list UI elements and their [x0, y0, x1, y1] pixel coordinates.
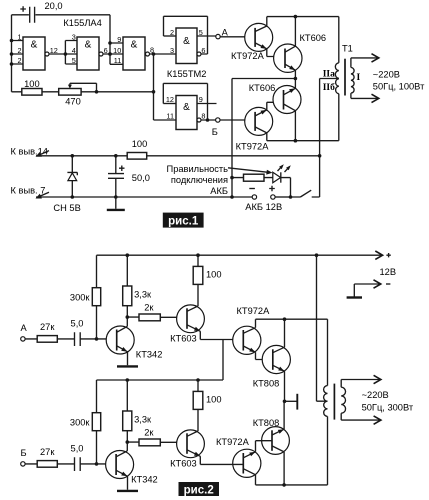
transformer T2 secondary	[341, 380, 345, 421]
supply minus arrow	[354, 283, 380, 285]
wire top rail to capacitor C1	[12, 14, 111, 16]
svg-text:&: &	[31, 40, 38, 51]
svg-text:IIб: IIб	[323, 82, 335, 93]
transistor KT808 B	[262, 427, 290, 455]
svg-text:К выв. 7: К выв. 7	[11, 185, 46, 195]
resistor 300k A	[96, 255, 98, 339]
node A terminal	[216, 34, 220, 38]
svg-text:К выв.14: К выв.14	[11, 146, 48, 156]
svg-text:3: 3	[72, 33, 76, 42]
svg-text:2: 2	[17, 46, 21, 55]
U2.1 pin6 bubble	[197, 52, 201, 56]
supply plus sign	[386, 253, 390, 257]
svg-text:АКБ: АКБ	[210, 186, 228, 196]
LED HL1	[273, 172, 281, 182]
wire emitter return vertical	[231, 79, 233, 198]
wire gnd rail B	[36, 196, 252, 198]
svg-text:100: 100	[132, 139, 148, 149]
wire U2.1 feedback loop 6 to 2	[164, 16, 208, 54]
svg-text:подключения: подключения	[171, 175, 228, 185]
gate U1.2 box	[77, 37, 99, 70]
svg-text:12: 12	[166, 95, 174, 104]
svg-text:К155ЛА4: К155ЛА4	[63, 18, 101, 28]
transistor KT342 A	[106, 326, 134, 354]
svg-text:5,0: 5,0	[71, 443, 84, 453]
node dot base B	[95, 462, 99, 466]
transistor KT808 A	[262, 345, 290, 373]
svg-text:8: 8	[201, 112, 205, 121]
resistor 2k B	[127, 441, 187, 443]
wire emitters center tap	[232, 78, 297, 80]
transistor Q2 KT606 top	[274, 44, 302, 72]
node dot wiper to track	[95, 90, 99, 94]
resistor 2k A	[127, 316, 187, 318]
node dot rail/center-tap	[315, 253, 319, 257]
svg-text:КТ972А: КТ972А	[236, 141, 270, 151]
transistor Q4 KT606 bottom	[273, 86, 301, 114]
wire base A	[97, 338, 117, 340]
node dot RC feedback	[152, 90, 156, 94]
wire plus to switch	[275, 196, 290, 198]
node dot loop/B	[206, 118, 210, 122]
zener VD1 SN5V	[71, 156, 73, 197]
wire secondary bottom out	[341, 419, 380, 421]
wire collectors rail B-pair	[256, 484, 328, 486]
transistor Q3 KT972A bottom	[245, 107, 273, 135]
svg-text:10: 10	[113, 46, 121, 55]
svg-text:470: 470	[65, 96, 81, 106]
gate U1.3 input stubs	[110, 43, 123, 64]
transformer T1 secondary winding I	[351, 58, 354, 99]
gate U1.1 input stubs	[12, 41, 24, 65]
capacitor 5,0 B	[75, 457, 81, 471]
node dot base A	[95, 337, 99, 341]
wire U1.1 out to U1.2 in	[49, 53, 65, 55]
svg-text:2к: 2к	[144, 427, 154, 437]
resistor 100 B	[193, 391, 203, 409]
node dot gate3 pin9	[108, 41, 112, 45]
transistor Q1 KT972A top	[245, 23, 273, 51]
transistor KT972A B	[233, 449, 261, 477]
gate U1.1 output bubble pin12	[45, 52, 49, 56]
wire base B	[97, 463, 117, 465]
node dot rail/100 A	[196, 253, 200, 257]
node B terminal	[216, 118, 220, 122]
svg-text:КТ342: КТ342	[131, 475, 158, 485]
svg-text:27к: 27к	[40, 322, 55, 332]
wire collectors rail A-pair	[256, 318, 328, 320]
wire battery feed to center tap	[320, 79, 339, 198]
svg-text:27к: 27к	[40, 447, 55, 457]
wire output bottom with arrow	[351, 97, 378, 99]
wire U1.3 out to FF clock node	[150, 53, 177, 55]
ground symbol minus	[353, 284, 355, 297]
svg-text:&: &	[183, 102, 190, 113]
resistor 100 A	[193, 266, 203, 284]
battery plus terminal	[271, 195, 275, 199]
transformer T2 primary	[327, 319, 329, 385]
node dot U1.2 inputs	[64, 52, 68, 56]
node dot 3.3k/2k A	[126, 315, 130, 319]
node dot Q4 collector	[294, 139, 298, 143]
capacitor C2 50,0	[115, 156, 117, 197]
svg-text:2: 2	[17, 56, 21, 65]
wire KT603A emitter to KT972A base	[200, 339, 243, 341]
fig1 label	[163, 213, 204, 228]
annotation arrow to LED	[228, 168, 267, 172]
svg-text:КТ603: КТ603	[170, 458, 197, 468]
fig2 label	[179, 482, 220, 496]
wire branch to mid rail	[222, 340, 224, 381]
svg-text:~220В: ~220В	[362, 390, 389, 400]
wire input B	[25, 463, 96, 465]
svg-text:&: &	[85, 40, 92, 51]
svg-text:11: 11	[114, 56, 122, 65]
svg-text:5: 5	[199, 28, 203, 37]
potentiometer R2 470	[59, 89, 81, 96]
wire +5V rail A	[36, 155, 320, 157]
wire +12V top rail	[97, 254, 382, 256]
resistor 3,3k B	[126, 380, 128, 442]
flip-flop U2.1 box	[176, 28, 197, 64]
capacitor stub	[285, 400, 297, 402]
node dot at gate3 input vertical	[108, 52, 112, 56]
svg-text:КТ603: КТ603	[170, 333, 197, 343]
gate U1.3 box	[123, 37, 145, 70]
svg-text:рис.2: рис.2	[184, 484, 214, 496]
gate U1.1 box	[23, 37, 45, 70]
svg-text:Б: Б	[21, 448, 27, 458]
svg-text:50Гц, 100Вт: 50Гц, 100Вт	[373, 82, 425, 92]
svg-text:5,0: 5,0	[71, 318, 84, 328]
svg-text:Т1: Т1	[342, 44, 353, 54]
svg-text:I: I	[357, 73, 361, 83]
svg-text:КТ972А: КТ972А	[216, 437, 250, 447]
svg-text:&: &	[183, 36, 190, 47]
svg-text:А: А	[21, 323, 28, 333]
svg-text:4: 4	[72, 46, 76, 55]
svg-text:Правильность: Правильность	[167, 164, 229, 174]
transformer T1 winding IIa	[335, 63, 338, 79]
LED arrows	[278, 167, 282, 171]
resistor 3,3k A	[126, 255, 128, 317]
transistor KT972A A	[233, 326, 261, 354]
resistor R1 100	[22, 89, 42, 96]
wire LED row	[232, 178, 291, 197]
input terminal B	[21, 462, 25, 466]
arrow to pin7	[40, 192, 50, 196]
U2.1 pin5 wire to node A	[197, 35, 216, 37]
transformer T2 core	[333, 384, 335, 420]
resistor R3 100 on rail A	[127, 153, 147, 160]
svg-text:А: А	[222, 27, 229, 37]
svg-text:11: 11	[166, 112, 174, 121]
svg-text:КТ808: КТ808	[253, 378, 280, 388]
svg-text:2к: 2к	[144, 302, 154, 312]
transistor KT603 B	[177, 430, 205, 458]
svg-text:300к: 300к	[70, 418, 91, 428]
svg-text:~220В: ~220В	[373, 70, 400, 80]
node dot Q2 collector	[294, 15, 298, 19]
svg-text:50,0: 50,0	[132, 173, 150, 183]
svg-text:рис.1: рис.1	[168, 215, 199, 227]
svg-text:1: 1	[17, 33, 21, 42]
node dot clock	[152, 52, 156, 56]
wire mid rail	[97, 379, 224, 381]
gate U1.2 output bubble pin6	[99, 52, 103, 56]
resistor R4 LED series	[244, 174, 265, 181]
wire left input bus vertical	[11, 15, 13, 92]
switch SA1	[291, 190, 320, 197]
ground below KT342 B	[117, 490, 138, 492]
transformer T1 core	[344, 59, 346, 96]
input terminal A	[21, 337, 25, 341]
capacitor 5,0 A	[75, 332, 81, 346]
wire collector top rail	[267, 16, 339, 18]
ground below C2	[115, 197, 117, 209]
node dot emitters	[294, 77, 298, 81]
wire secondary top out	[341, 379, 380, 381]
wire output top with arrow	[351, 57, 378, 59]
svg-text:12В: 12В	[380, 267, 397, 277]
svg-text:КТ808: КТ808	[253, 418, 280, 428]
svg-text:300к: 300к	[70, 293, 91, 303]
resistor 27k B	[37, 461, 57, 468]
resistor 27k A	[37, 336, 57, 343]
wire input A	[25, 338, 96, 340]
svg-text:3,3к: 3,3к	[134, 414, 152, 424]
node dot gate3 pin10	[108, 52, 112, 56]
wire U1.2 input bus	[65, 41, 77, 65]
svg-text:КТ606: КТ606	[249, 83, 276, 93]
wire collector bottom rail	[267, 140, 339, 142]
svg-text:3: 3	[170, 46, 174, 55]
svg-text:20,0: 20,0	[45, 1, 63, 11]
wire gate3 input vertical	[109, 15, 111, 65]
svg-text:3,3к: 3,3к	[134, 289, 152, 299]
svg-text:&: &	[131, 40, 138, 51]
arrow to pin14	[40, 151, 50, 155]
gate U1.3 output bubble pin8	[146, 52, 150, 56]
wire RC row left corner	[12, 91, 154, 93]
transistor KT342 B	[106, 451, 134, 479]
svg-text:9: 9	[199, 95, 203, 104]
svg-text:КТ972А: КТ972А	[231, 51, 265, 61]
svg-text:5: 5	[72, 56, 76, 65]
transformer T1 primary vertical bottom	[338, 94, 340, 141]
svg-text:100: 100	[206, 270, 222, 280]
node dots on input bus	[10, 39, 14, 43]
wire center tap feed	[317, 255, 328, 401]
svg-text:Б: Б	[212, 127, 218, 137]
potentiometer R2 wiper	[70, 83, 97, 92]
svg-text:КТ342: КТ342	[136, 350, 163, 360]
wire U1.2 out to U1.3	[103, 53, 123, 55]
capacitor C1 plus sign	[20, 6, 26, 12]
transistor KT603 A	[177, 305, 205, 333]
svg-text:К155ТМ2: К155ТМ2	[167, 69, 207, 79]
capacitor C1 20,0 plates	[30, 7, 35, 23]
svg-text:СН 5В: СН 5В	[53, 203, 80, 213]
wire U2.2 feedback loop 8 to 12	[163, 83, 215, 120]
wire KT603B emitter to KT972A-B base	[200, 463, 243, 465]
battery minus terminal	[252, 195, 256, 199]
svg-text:КТ972А: КТ972А	[237, 306, 271, 316]
wire clock vertical	[154, 54, 177, 120]
U2.1 pin2 stub	[164, 35, 177, 37]
svg-text:КТ606: КТ606	[300, 33, 327, 43]
svg-text:50Гц, 300Вт: 50Гц, 300Вт	[362, 402, 414, 412]
resistor 300k B	[96, 380, 98, 464]
U2.2 pin8 bubble	[197, 118, 201, 122]
wire B to Q3 base	[220, 119, 255, 121]
U2.2 pin12 stub	[163, 103, 176, 105]
svg-text:100: 100	[206, 395, 222, 405]
ground below KT342 A	[117, 365, 138, 367]
svg-text:100: 100	[24, 79, 40, 89]
node dot rail/3.3k A	[126, 253, 130, 257]
wire A to Q1 base	[220, 36, 255, 38]
node dot emitters join	[283, 400, 287, 404]
svg-text:2: 2	[170, 28, 174, 37]
transformer T1 primary vertical top	[338, 17, 340, 63]
flip-flop U2.2 box	[176, 96, 197, 130]
node dot 3.3k/2k B	[126, 440, 130, 444]
svg-text:АКБ 12В: АКБ 12В	[245, 202, 282, 212]
transformer T1 winding IIb	[336, 79, 339, 94]
U2.2 pin9 stub	[197, 103, 217, 105]
svg-text:9: 9	[117, 35, 121, 44]
